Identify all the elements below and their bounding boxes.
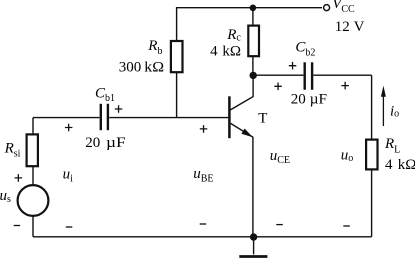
resistor Rc (248, 26, 259, 57)
capacitor Cb1 plates (101, 104, 108, 130)
svg-text:300: 300 (119, 59, 142, 75)
wire base horizontal right of Cb1 (109, 117, 228, 119)
transistor emitter arrow (241, 129, 252, 138)
wire collector column (252, 8, 254, 76)
source us circle (18, 185, 49, 216)
plus Cb2 (289, 62, 297, 70)
capacitor Cb2 plates (305, 62, 312, 90)
svg-text:kΩ: kΩ (398, 157, 415, 173)
resistor Rb (171, 41, 183, 72)
node dot emitter bottom (250, 233, 257, 240)
wire base horizontal left of Cb1 (33, 117, 99, 119)
svg-text:kΩ: kΩ (222, 44, 241, 60)
resistor Rsi (27, 134, 38, 166)
VCC terminal circle (324, 5, 330, 11)
plus uo (341, 82, 349, 90)
svg-text:µF: µF (106, 135, 126, 151)
wire top rail (177, 8, 322, 118)
wire Cb2 left (253, 74, 303, 76)
minus us (14, 225, 21, 227)
minus uBE (200, 223, 207, 225)
svg-text:kΩ: kΩ (144, 59, 164, 75)
node dot top rail (250, 5, 257, 12)
wire emitter vertical (231, 123, 253, 236)
node dot collector (250, 72, 257, 79)
wire ground stub (253, 237, 255, 255)
plus ui (65, 124, 73, 132)
transistor T bar (228, 96, 231, 138)
minus uCE (276, 224, 283, 226)
io arrow (382, 95, 384, 126)
plus uCE (274, 83, 282, 91)
ground bar (239, 255, 267, 258)
resistor RL (366, 140, 377, 170)
minus uo (343, 225, 350, 227)
wire Cb2 right (313, 74, 371, 76)
svg-text:T: T (258, 111, 267, 127)
svg-text:V: V (354, 19, 365, 35)
svg-text:4: 4 (210, 44, 218, 60)
svg-text:12: 12 (335, 19, 350, 35)
plus uBE (200, 125, 208, 133)
wire left branch vertical (32, 118, 34, 237)
svg-text:4: 4 (385, 157, 393, 173)
minus ui (66, 226, 73, 228)
svg-text:20: 20 (291, 92, 306, 108)
plus Cb1 (115, 105, 123, 113)
wire collector to transistor (230, 75, 253, 110)
wire bottom rail (33, 236, 372, 238)
svg-text:µF: µF (310, 92, 327, 108)
wire right branch vertical (371, 75, 373, 237)
svg-text:20: 20 (85, 135, 100, 151)
plus us (15, 174, 23, 182)
